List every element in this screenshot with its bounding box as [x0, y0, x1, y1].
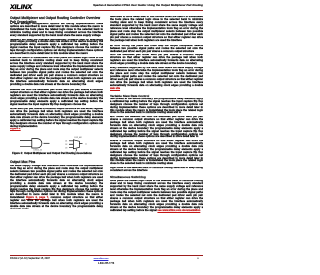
- figure caption: [6, 152, 99, 155]
- figure: output multiplexer diagram: [10, 130, 103, 153]
- right col paragraph 5: [110, 98, 203, 116]
- left col paragraph 1: [10, 23, 103, 38]
- right col paragraph 6: [110, 116, 203, 140]
- right col heading 1: [110, 95, 203, 98]
- Xilinx logo: [10, 2, 40, 10]
- left col heading 2: [10, 160, 103, 164]
- svg-text:D1: D1: [65, 141, 67, 143]
- footer red rule: [10, 255, 203, 256]
- svg-text:D3: D3: [65, 147, 67, 149]
- red figure reference line: [10, 128, 103, 131]
- right col paragraph 1: [110, 16, 203, 43]
- and gate A1 output wire: [44, 142, 50, 144]
- right col paragraph 7: [110, 140, 203, 167]
- footer right: page number: [193, 258, 203, 260]
- header document title: [0, 3, 203, 7]
- left col paragraph 4: [10, 89, 103, 107]
- right col paragraph 8: [110, 167, 203, 173]
- right col paragraph 4 with red web link: [110, 67, 203, 91]
- mux M1 input wires: [69, 141, 73, 148]
- header red rule: [10, 10, 203, 11]
- right col paragraph 2: [110, 45, 203, 54]
- svg-text:Q: Q: [85, 143, 87, 145]
- and gate A1 body: [32, 139, 42, 148]
- svg-text:COR_M4: COR_M4: [74, 137, 82, 139]
- svg-text:D2: D2: [65, 144, 67, 146]
- footer left: doc number and date: [10, 257, 50, 260]
- left col paragraph 5: [10, 108, 103, 129]
- mux M1 output wire: [79, 143, 82, 145]
- and gate A1 input wires: [20, 141, 32, 147]
- right col heading 2: [110, 176, 203, 179]
- left column section heading: [10, 16, 106, 24]
- right col paragraph 3: [110, 54, 203, 66]
- left col paragraph 2: [10, 39, 103, 57]
- footer center: web link: [85, 258, 117, 260]
- mux M1 trapezoid: [73, 140, 79, 149]
- mux M1 select stub: [75, 149, 77, 151]
- right col paragraph 9 with trailing red link: [110, 180, 203, 213]
- left col paragraph 3: [10, 57, 103, 87]
- svg-text:DS312_04: DS312_04: [34, 150, 43, 152]
- left col paragraph 6 with red link: [10, 165, 103, 209]
- footer center: phone: [90, 263, 122, 265]
